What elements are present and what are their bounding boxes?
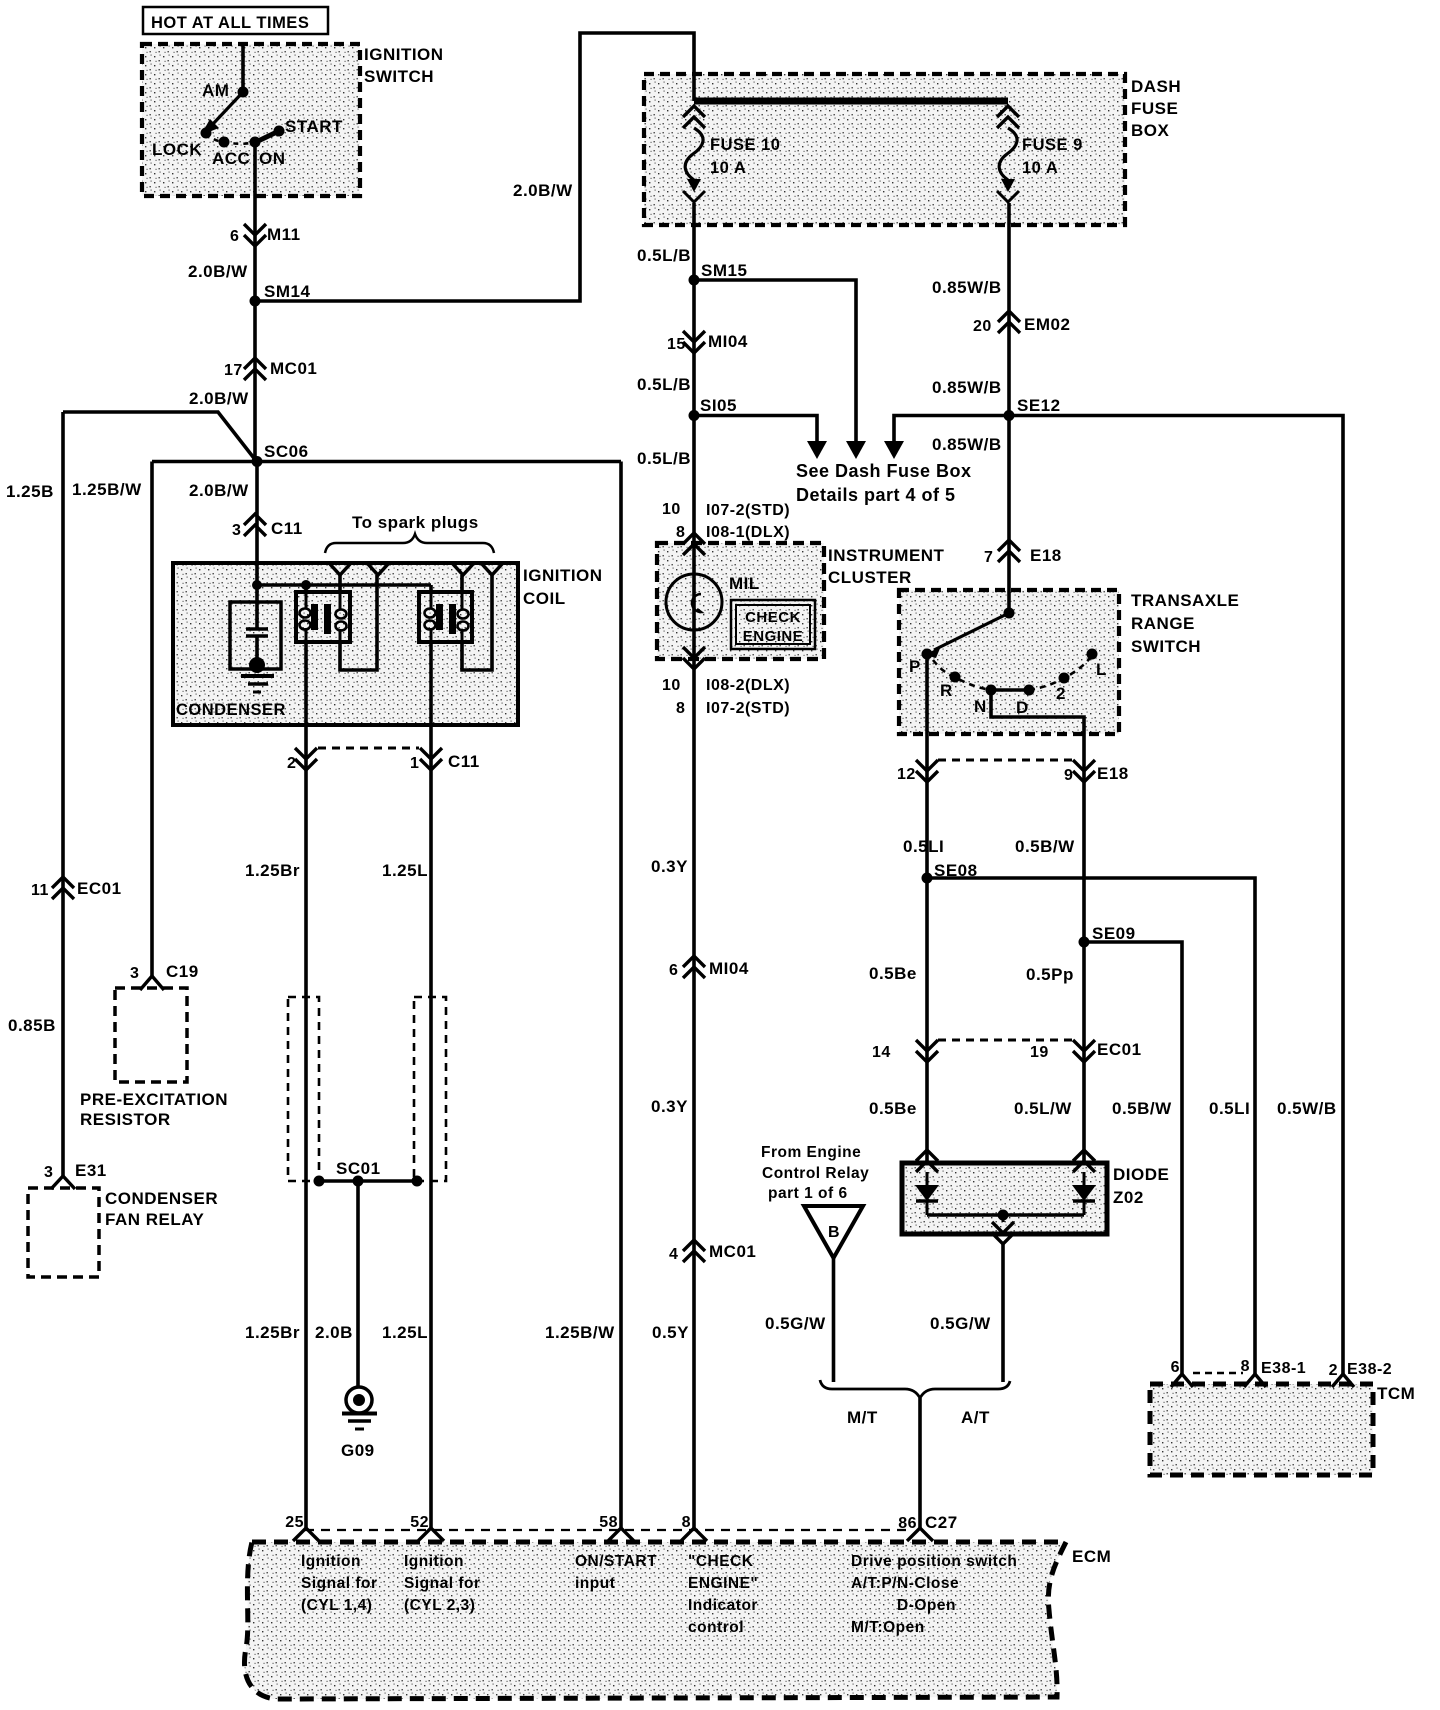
ECM connector row line [305,1529,910,1531]
svg-text:I07-2(STD): I07-2(STD) [706,700,790,717]
connector EC01 pin 11 [52,877,74,888]
node SC06 [252,456,263,467]
svg-text:10: 10 [662,677,681,694]
svg-text:C27: C27 [925,1513,958,1532]
instrument cluster box [657,543,824,659]
svg-text:FUSE: FUSE [1131,99,1178,118]
svg-text:0.85W/B: 0.85W/B [932,435,1002,454]
ignition coil box [173,563,518,725]
svg-text:R: R [940,681,953,700]
connector E18 pin 9 [1073,760,1095,771]
svg-text:CONDENSER: CONDENSER [105,1189,218,1208]
wire branch to left [63,412,257,462]
svg-text:0.5G/W: 0.5G/W [930,1314,991,1333]
svg-text:part 1 of 6: part 1 of 6 [768,1185,848,1202]
svg-text:8: 8 [676,700,685,717]
wire coil pin1 to ECM 52 [429,642,433,1528]
node diode out [998,1210,1009,1221]
contact START [274,126,285,137]
wire N-D bar [991,688,1029,692]
brace to spark plugs [325,534,494,553]
svg-text:I07-2(STD): I07-2(STD) [706,502,790,519]
node SE09 [1079,937,1090,948]
svg-text:IGNITION: IGNITION [523,566,603,585]
connector EC01 pin 19 [1073,1040,1095,1051]
fuse F10 [683,106,705,117]
svg-text:Indicator: Indicator [688,1597,758,1614]
svg-text:3: 3 [44,1164,53,1181]
svg-text:0.3Y: 0.3Y [651,1097,688,1116]
switch arm [934,613,1009,650]
wire SE08 to diode [925,878,929,1163]
connector MC01 pin 17 [244,358,266,369]
svg-text:MI04: MI04 [709,959,749,978]
brace M/T A/T [820,1380,1010,1398]
connector MC01 pin 4 [683,1240,705,1251]
svg-text:EM02: EM02 [1024,315,1070,334]
svg-text:9: 9 [1064,767,1073,784]
svg-text:52: 52 [410,1514,429,1531]
contact R [950,672,961,683]
svg-text:10: 10 [662,501,681,518]
svg-text:TRANSAXLE: TRANSAXLE [1131,591,1239,610]
svg-text:Z02: Z02 [1113,1188,1144,1207]
switch contact arc [933,660,991,690]
svg-text:ON: ON [259,149,286,168]
wire SE08 branch to TCM 8 [927,878,1255,1374]
contact ACC [219,137,230,148]
svg-text:A/T:P/N-Close: A/T:P/N-Close [851,1575,959,1592]
svg-text:0.5L/B: 0.5L/B [637,449,691,468]
wire brace to ECM 86 [918,1398,922,1528]
svg-text:2.0B/W: 2.0B/W [513,181,573,200]
transaxle range switch box [899,590,1119,734]
svg-text:8: 8 [676,524,685,541]
svg-text:0.5G/W: 0.5G/W [765,1314,826,1333]
connector TCM pin 6 [1171,1374,1193,1387]
svg-text:0.5Be: 0.5Be [869,964,917,983]
svg-text:0.85W/B: 0.85W/B [932,378,1002,397]
node SC01 right [412,1176,423,1187]
svg-text:0.5Be: 0.5Be [869,1099,917,1118]
svg-text:0.5L/W: 0.5L/W [1014,1099,1072,1118]
node SE08 [922,873,933,884]
wire SE12 left branch [894,416,1009,449]
svg-text:17: 17 [224,362,243,379]
connector C11 pin 3 [244,514,266,525]
wire T1 secondary [338,575,342,592]
condenser ground [249,657,265,673]
svg-text:1.25Br: 1.25Br [245,861,300,880]
svg-text:M/T: M/T [847,1408,878,1427]
svg-text:15: 15 [667,336,686,353]
contact N [986,685,997,696]
svg-text:0.5W/B: 0.5W/B [1277,1099,1337,1118]
connector C19 pin 3 [140,976,164,990]
dash fuse box [644,74,1125,225]
svg-text:Drive position switch: Drive position switch [851,1553,1017,1570]
svg-text:MIL: MIL [729,574,760,593]
power triangle B [804,1206,863,1258]
svg-text:(CYL 2,3): (CYL 2,3) [404,1597,475,1614]
condenser case [230,602,281,669]
svg-text:1.25B/W: 1.25B/W [545,1323,615,1342]
svg-text:D-Open: D-Open [897,1597,956,1614]
svg-text:ENGINE": ENGINE" [688,1575,758,1592]
svg-text:START: START [285,117,343,136]
svg-text:SM15: SM15 [701,261,747,280]
svg-text:6: 6 [1171,1359,1180,1376]
ECM box [244,1542,1066,1699]
svg-text:10 A: 10 A [710,159,746,177]
svg-text:0.5B/W: 0.5B/W [1015,837,1075,856]
svg-text:ON/START: ON/START [575,1553,657,1570]
svg-text:2.0B: 2.0B [315,1323,353,1342]
svg-text:2.0B/W: 2.0B/W [189,389,249,408]
svg-text:SC01: SC01 [336,1159,381,1178]
svg-text:SWITCH: SWITCH [1131,637,1201,656]
wire 1.25B to E31 [61,412,65,1176]
svg-text:input: input [575,1575,615,1592]
svg-text:D: D [1016,698,1029,717]
node SM14 [250,296,261,307]
svg-text:Signal for: Signal for [404,1575,480,1592]
wire E18 connector dashed link [938,759,1072,762]
svg-text:6: 6 [669,962,678,979]
node switch pivot [1004,608,1015,619]
wire SE12 right branch to TCM 2 [1009,416,1343,1375]
arrow see dash fuse box 1 [815,442,819,444]
svg-text:1.25Br: 1.25Br [245,1323,300,1342]
svg-text:Control Relay: Control Relay [762,1165,869,1182]
svg-text:0.5LI: 0.5LI [903,837,944,856]
wire coil pin2 to ECM 25 [304,642,308,1528]
connector MI04 pin 6 [683,956,705,967]
svg-text:0.85W/B: 0.85W/B [932,278,1002,297]
node coil bus 2 [301,580,311,590]
svg-text:G09: G09 [341,1441,375,1460]
connector diode in right [1073,1150,1095,1161]
svg-text:CONDENSER: CONDENSER [176,701,286,719]
svg-text:2: 2 [1329,1362,1338,1379]
svg-text:1.25L: 1.25L [382,1323,428,1342]
node AM [238,87,249,98]
svg-text:P: P [909,657,921,676]
wire ignition feed [241,44,245,92]
svg-text:DASH: DASH [1131,77,1181,96]
ECM pin 8 [681,1528,707,1541]
svg-text:12: 12 [897,766,916,783]
wire TCM connector dashed link [1193,1372,1243,1375]
fuse F9 [997,106,1019,117]
node SM15 [689,275,700,286]
ECM pin 86 [907,1528,933,1541]
diode D2 [1083,1172,1086,1185]
arrow see dash fuse box 3 [892,442,896,444]
wire P to pin 12 [925,654,929,878]
arrow see dash fuse box 2 [854,442,858,444]
svg-text:COIL: COIL [523,589,566,608]
svg-text:Signal for: Signal for [301,1575,377,1592]
wire diode to brace [1001,1244,1005,1382]
svg-text:C11: C11 [271,519,303,538]
svg-text:Ignition: Ignition [301,1553,361,1570]
contact 2 [1059,673,1070,684]
wire C11 connector dashed link [318,747,419,750]
svg-text:0.5Y: 0.5Y [652,1323,689,1342]
svg-text:SI05: SI05 [700,396,737,415]
svg-text:TCM: TCM [1377,1384,1415,1403]
svg-text:1.25B: 1.25B [6,482,54,501]
ECM pin 58 [608,1528,634,1541]
contact LOCK [201,128,212,139]
svg-text:BOX: BOX [1131,121,1170,140]
indicator CHECK ENGINE [731,600,815,649]
connector TCM pin 8 E38-1 [1244,1374,1266,1387]
spark plug terminal 1 [329,563,351,575]
label HOT AT ALL TIMES [143,7,328,34]
ECM pin 25 [293,1528,319,1541]
svg-text:C11: C11 [448,752,480,771]
connector MI04 pin 15 [683,331,705,342]
svg-text:Ignition: Ignition [404,1553,464,1570]
connector cluster out [683,647,705,658]
wire SC06 horizontal [152,460,621,464]
connector M11 pin 6 [244,224,266,235]
wire SC01 to ground [356,1181,360,1387]
wire T1 primary [304,585,308,592]
svg-text:MC01: MC01 [270,359,317,378]
diode D1 [926,1172,929,1185]
wire 1.25B/W to C19 [150,462,154,977]
svg-text:I08-2(DLX): I08-2(DLX) [706,677,790,694]
svg-text:7: 7 [984,549,993,566]
svg-text:Details part 4 of 5: Details part 4 of 5 [796,485,956,505]
wire fuse10 down to ECM 8 [692,203,696,1528]
wire SC01 [319,1179,417,1183]
svg-text:0.5L/B: 0.5L/B [637,246,691,265]
ON-START bridge [252,130,281,144]
svg-text:1.25L: 1.25L [382,861,428,880]
svg-text:4: 4 [669,1246,678,1263]
svg-text:SC06: SC06 [264,442,309,461]
svg-text:0.5Pp: 0.5Pp [1026,965,1074,984]
connector E18 pin 7 [998,540,1020,551]
spark plug terminal 3 [452,563,474,575]
svg-text:E18: E18 [1097,764,1129,783]
svg-text:2: 2 [287,755,296,772]
svg-text:MI04: MI04 [708,332,748,351]
svg-text:M/T:Open: M/T:Open [851,1619,925,1636]
svg-text:AM: AM [202,81,229,100]
svg-text:0.5B/W: 0.5B/W [1112,1099,1172,1118]
svg-text:E18: E18 [1030,546,1062,565]
svg-text:From Engine: From Engine [761,1144,861,1161]
wire fuse9 down to switch [1007,203,1011,613]
contact D [1024,685,1035,696]
svg-text:E31: E31 [75,1161,107,1180]
svg-text:1: 1 [410,755,419,772]
svg-text:A/T: A/T [961,1408,990,1427]
svg-text:8: 8 [682,1514,691,1531]
condenser fan relay box [28,1188,99,1277]
svg-text:3: 3 [130,965,139,982]
svg-text:14: 14 [872,1044,891,1061]
wire SI05 branch [694,416,817,449]
svg-text:86: 86 [898,1515,917,1532]
node SC01 mid [353,1176,364,1187]
svg-text:2: 2 [1056,684,1066,703]
svg-text:LOCK: LOCK [152,140,202,159]
pre-excitation resistor box [115,988,187,1082]
svg-text:3: 3 [232,522,241,539]
wire coil internal bus [255,462,259,585]
connector EC01 pin 14 [916,1040,938,1051]
svg-text:25: 25 [285,1514,304,1531]
svg-text:See Dash Fuse Box: See Dash Fuse Box [796,461,972,481]
svg-text:ENGINE: ENGINE [743,628,804,645]
shield left [288,997,319,1181]
svg-text:FUSE 10: FUSE 10 [710,136,780,154]
fuse bus bar [694,98,1008,105]
svg-text:0.5LI: 0.5LI [1209,1099,1250,1118]
ECM pin 52 [418,1528,444,1541]
svg-text:1.25B/W: 1.25B/W [72,480,142,499]
svg-text:CHECK: CHECK [745,609,801,626]
node SC01 left [314,1176,325,1187]
svg-text:SWITCH: SWITCH [364,67,434,86]
lamp MIL [666,574,722,630]
svg-text:RANGE: RANGE [1131,614,1195,633]
svg-text:ECM: ECM [1072,1547,1111,1566]
wire T2 primary [429,585,433,592]
svg-text:HOT AT ALL TIMES: HOT AT ALL TIMES [151,14,309,32]
connector C11 pin 2 [295,748,317,759]
svg-text:SE12: SE12 [1017,396,1061,415]
svg-text:E38-2: E38-2 [1347,1361,1392,1378]
wire SM15 branch [694,280,856,448]
svg-text:FUSE 9: FUSE 9 [1022,136,1083,154]
svg-text:B: B [828,1224,840,1241]
wire ON to SC06 [253,142,257,462]
ignition switch arm [212,92,243,125]
spark plug terminal 2 [367,563,389,575]
svg-text:58: 58 [599,1514,618,1531]
svg-text:EC01: EC01 [77,879,122,898]
svg-text:20: 20 [973,318,992,335]
svg-text:RESISTOR: RESISTOR [80,1110,171,1129]
connector E31 pin 3 [51,1176,75,1189]
svg-text:PRE-EXCITATION: PRE-EXCITATION [80,1090,228,1109]
ignition switch box [142,44,360,196]
wire T2 secondary [460,575,464,592]
svg-text:ACC: ACC [212,149,250,168]
wire SE09 branch to TCM 6 [1084,942,1182,1374]
svg-text:DIODE: DIODE [1113,1165,1169,1184]
shield right [414,997,446,1181]
svg-text:FAN RELAY: FAN RELAY [105,1210,204,1229]
svg-text:0.3Y: 0.3Y [651,857,688,876]
svg-text:E38-1: E38-1 [1261,1360,1306,1377]
wire B to brace [832,1258,836,1382]
svg-text:10 A: 10 A [1022,159,1058,177]
svg-text:MC01: MC01 [709,1242,756,1261]
svg-text:L: L [1096,660,1107,679]
wire SM14 to fuse box [255,33,694,301]
svg-text:2.0B/W: 2.0B/W [188,262,248,281]
svg-text:INSTRUMENT: INSTRUMENT [828,546,945,565]
svg-text:0.5L/B: 0.5L/B [637,375,691,394]
svg-text:To spark plugs: To spark plugs [352,513,479,532]
svg-text:6: 6 [230,228,239,245]
connector C11 pin 1 [420,748,442,759]
connector diode in left [916,1150,938,1161]
ground G09 [346,1387,372,1413]
svg-text:M11: M11 [267,225,301,244]
contact ON [250,137,261,148]
spark plug terminal 4 [481,563,503,575]
svg-text:SE09: SE09 [1092,924,1136,943]
wire N to pin 9 [991,690,1084,942]
capacitor condenser [255,585,259,629]
node SE12 [1004,410,1015,421]
wire 1.25B/W to ECM 58 [619,462,623,1529]
svg-text:(CYL 1,4): (CYL 1,4) [301,1597,372,1614]
switch contact arc [206,133,250,144]
contact P [922,649,933,660]
svg-text:C19: C19 [166,962,199,981]
svg-text:control: control [688,1619,744,1636]
connector TCM pin 2 E38-2 [1332,1374,1354,1387]
svg-text:0.85B: 0.85B [8,1016,56,1035]
node SI05 [689,410,700,421]
node coil bus 1 [252,580,262,590]
transformer T2 [419,592,472,642]
svg-text:EC01: EC01 [1097,1040,1142,1059]
connector E18 pin 12 [916,760,938,771]
diode box Z02 [902,1163,1107,1234]
wire EC01 connector dashed link [938,1039,1072,1042]
svg-text:"CHECK: "CHECK [688,1553,754,1570]
connector diode out [1002,1215,1005,1222]
connector EM02 pin 20 [998,311,1020,322]
svg-text:2.0B/W: 2.0B/W [189,481,249,500]
svg-text:N: N [974,697,987,716]
TCM box [1150,1384,1373,1475]
svg-text:IGNITION: IGNITION [364,45,444,64]
wire SE09 to diode [1082,942,1086,1163]
svg-text:19: 19 [1030,1044,1049,1061]
svg-text:11: 11 [31,882,49,899]
wire diode bus [927,1213,1084,1217]
transformer T1 [296,592,350,642]
svg-text:CLUSTER: CLUSTER [828,568,912,587]
svg-text:SM14: SM14 [264,282,310,301]
svg-text:I08-1(DLX): I08-1(DLX) [706,524,790,541]
contact L [1087,649,1098,660]
